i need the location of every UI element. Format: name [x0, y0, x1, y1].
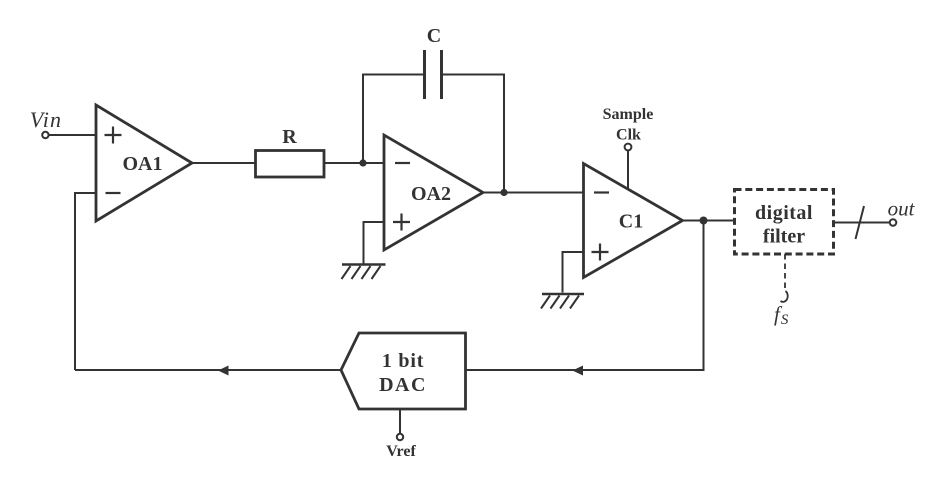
svg-text:Vin: Vin [30, 107, 63, 132]
svg-text:OA2: OA2 [411, 183, 451, 205]
svg-text:Clk: Clk [616, 127, 641, 144]
svg-text:R: R [282, 126, 297, 148]
svg-text:digital: digital [755, 202, 813, 224]
svg-text:1 bit: 1 bit [382, 350, 424, 372]
svg-text:Vref: Vref [386, 443, 416, 460]
svg-text:filter: filter [763, 226, 805, 248]
svg-text:DAC: DAC [379, 374, 427, 396]
svg-text:C: C [427, 25, 441, 47]
svg-text:C1: C1 [619, 211, 643, 233]
svg-text:OA1: OA1 [123, 153, 163, 175]
svg-text:out: out [888, 197, 916, 221]
svg-text:Sample: Sample [603, 106, 654, 123]
